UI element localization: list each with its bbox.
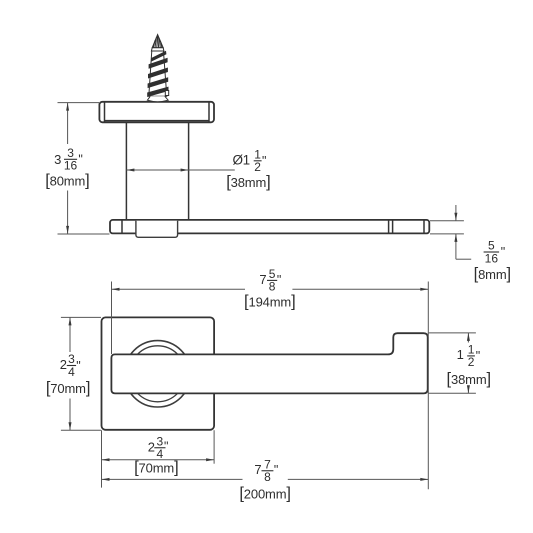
svg-text:[38mm]: [38mm] bbox=[447, 370, 491, 388]
svg-text:7: 7 bbox=[254, 462, 261, 477]
dimension 194mm: line right segment bbox=[292, 288, 428, 290]
dimension bottom 70mm: left extension line bbox=[101, 430, 103, 487]
svg-text:[8mm]: [8mm] bbox=[474, 265, 511, 283]
dimension diameter 38mm: line bbox=[126, 169, 234, 171]
arm bar (side view) bbox=[110, 220, 429, 234]
screw shank bbox=[149, 51, 167, 97]
dimension left 70mm: top arrow bbox=[69, 317, 72, 325]
dimension left 70mm: vertical lower bbox=[69, 399, 71, 431]
dimension right 38mm: up arrow bbox=[467, 333, 470, 341]
dimension 80mm: vertical line upper bbox=[67, 103, 69, 144]
wall flange (side view) bbox=[99, 102, 214, 123]
svg-text:2: 2 bbox=[60, 357, 67, 372]
dimension right 38mm: bottom extension line bbox=[429, 392, 476, 394]
dimension 80mm: top extension line bbox=[58, 102, 100, 104]
svg-text:": " bbox=[76, 359, 80, 373]
thread band 4 bbox=[147, 87, 168, 97]
svg-text:16: 16 bbox=[485, 251, 499, 265]
dimension 200mm: line left segment bbox=[102, 478, 243, 480]
dimension diameter: left arrow bbox=[126, 169, 134, 172]
svg-text:8: 8 bbox=[269, 280, 276, 294]
svg-text:3: 3 bbox=[54, 152, 61, 167]
inner circle of post (front view) bbox=[130, 346, 186, 402]
svg-text:": " bbox=[164, 439, 168, 453]
svg-text:1: 1 bbox=[457, 347, 464, 362]
label 7-5/8 inch bbox=[259, 267, 281, 294]
svg-text:[38mm]: [38mm] bbox=[226, 173, 270, 191]
svg-text:[200mm]: [200mm] bbox=[239, 484, 290, 502]
dimension 80mm: vertical line lower bbox=[67, 191, 69, 234]
svg-text:": " bbox=[501, 245, 505, 259]
dimension bottom 70mm: right extension line bbox=[213, 430, 215, 464]
dimension left 70mm: bottom extension line bbox=[61, 429, 101, 431]
svg-text:4: 4 bbox=[157, 447, 164, 461]
thread band 1 bbox=[149, 58, 168, 69]
label diameter 1-1/2 inch bbox=[233, 147, 267, 174]
post right edge (side view) bbox=[188, 122, 190, 219]
dimension right 38mm: down arrow bbox=[467, 385, 470, 393]
arm bracket recess bbox=[136, 221, 178, 238]
svg-text:1: 1 bbox=[243, 153, 251, 168]
mounting screw bbox=[147, 35, 169, 102]
flange edge line right bbox=[208, 102, 210, 122]
svg-text:": " bbox=[476, 349, 480, 363]
svg-text:": " bbox=[262, 154, 266, 168]
dimension 80mm: bottom arrow bbox=[66, 226, 69, 234]
label 1-1/2 inch right bbox=[457, 343, 481, 370]
flange edge line left bbox=[104, 102, 106, 122]
thread start bbox=[151, 51, 166, 62]
dimension 8mm: down arrow bbox=[454, 213, 457, 221]
svg-text:16: 16 bbox=[64, 159, 78, 173]
outer circle of post (front view) bbox=[124, 341, 190, 407]
dimension bottom 70mm: left arrow bbox=[102, 458, 110, 461]
screw tip cone bbox=[152, 35, 163, 48]
screw collar bbox=[151, 48, 164, 51]
dimension diameter: right arrow bbox=[181, 169, 189, 172]
screw tip hatching bbox=[153, 40, 155, 48]
dimension 200mm: left arrow bbox=[102, 478, 110, 481]
thread band 3 bbox=[148, 77, 169, 88]
dimension bottom 70mm: line bbox=[102, 459, 215, 461]
arm left cap line bbox=[121, 220, 123, 233]
svg-text:": " bbox=[277, 273, 281, 287]
svg-text:4: 4 bbox=[68, 365, 75, 379]
svg-text:[194mm]: [194mm] bbox=[244, 293, 295, 311]
arm with hook (front view) bbox=[111, 333, 427, 393]
screw base flare bbox=[147, 96, 168, 101]
dimension 194mm: left arrow bbox=[112, 288, 120, 291]
dimension 8mm: up arrow bbox=[454, 234, 457, 242]
dimension right 38mm: lower stem bbox=[467, 387, 469, 394]
dimension 8mm: lower stem bbox=[455, 234, 457, 259]
svg-text:[80mm]: [80mm] bbox=[45, 172, 89, 190]
label 5/16 inch bbox=[484, 239, 506, 266]
dimension right 38mm: top extension line bbox=[429, 332, 476, 334]
dimension left 70mm: vertical upper bbox=[69, 317, 71, 352]
svg-text:8: 8 bbox=[264, 470, 271, 484]
dimension left 70mm: top extension line bbox=[61, 316, 101, 318]
dimension left 70mm: bottom arrow bbox=[69, 422, 72, 430]
dimension 194mm: right extension line bbox=[427, 282, 429, 490]
dimension 194mm: line left segment bbox=[112, 288, 246, 290]
svg-text:2: 2 bbox=[254, 160, 261, 174]
dimension 8mm: leader jog bbox=[456, 258, 471, 260]
svg-text:2: 2 bbox=[468, 355, 475, 369]
dimension 200mm: line right segment bbox=[288, 478, 429, 480]
dimension 194mm: left extension line bbox=[111, 282, 113, 355]
dimension right 38mm: upper stem bbox=[467, 333, 469, 343]
dimension 194mm: right arrow bbox=[420, 288, 428, 291]
thread band 2 bbox=[148, 68, 168, 79]
label 2-3/4 inch left bbox=[60, 352, 81, 379]
thread tab bbox=[165, 91, 168, 96]
dimension bottom 70mm: right arrow bbox=[206, 458, 214, 461]
flange lip line bbox=[105, 120, 210, 122]
svg-text:": " bbox=[78, 153, 82, 167]
arm end cap line bbox=[423, 220, 425, 233]
label 2-3/4 inch bottom bbox=[148, 434, 169, 461]
dimension 8mm: bottom extension line bbox=[430, 233, 464, 235]
label 7-7/8 inch bbox=[254, 457, 278, 484]
svg-text:2: 2 bbox=[148, 440, 155, 455]
svg-text:[70mm]: [70mm] bbox=[46, 379, 90, 397]
dimension 200mm: right arrow bbox=[420, 478, 428, 481]
svg-text:7: 7 bbox=[259, 272, 266, 287]
dimension 8mm: upper stem bbox=[455, 205, 457, 221]
arm bend line b bbox=[392, 220, 394, 233]
svg-text:": " bbox=[274, 463, 278, 477]
dimension 80mm: top arrow bbox=[66, 103, 69, 111]
label 3-3/16 inch bbox=[54, 146, 83, 173]
square rose plate (front view) bbox=[102, 317, 215, 429]
dimension 8mm: top extension line bbox=[430, 220, 464, 222]
post left edge (side view) bbox=[125, 122, 127, 219]
arm bend line a bbox=[388, 220, 390, 233]
dimension 80mm: bottom extension line bbox=[58, 233, 110, 235]
svg-text:[70mm]: [70mm] bbox=[134, 458, 178, 476]
